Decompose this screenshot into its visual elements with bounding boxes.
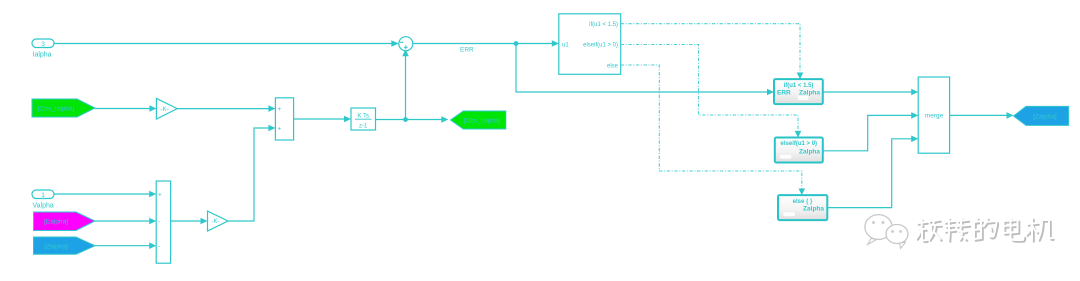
svg-text:ERR: ERR — [460, 47, 474, 54]
gain -K- lower — [208, 211, 229, 231]
dashed control wire else to action subsystem 3 — [621, 65, 805, 195]
inport 3 Ialpha — [32, 39, 54, 59]
svg-text:-K-: -K- — [161, 107, 169, 113]
wire action2 to merge — [823, 112, 918, 151]
wire ERR junction down to action subsystem 1 — [516, 44, 774, 96]
watermark wechat icon small bubble — [886, 225, 908, 249]
svg-text:[Obs_Ialpha]: [Obs_Ialpha] — [38, 106, 75, 113]
svg-text:K Ts: K Ts — [357, 114, 369, 120]
goto tag [Obs_Ialpha] green — [451, 111, 506, 129]
wire sum1 to integrator — [294, 116, 351, 123]
gain -K- upper — [156, 98, 177, 119]
wire sum2 to gain K2 — [171, 218, 208, 225]
svg-text:if(u1 < 1.5): if(u1 < 1.5) — [589, 22, 618, 28]
from tag [Ealpha] magenta — [34, 212, 96, 231]
If block u1 — [559, 14, 621, 75]
wire Ealpha to sum2 — [95, 218, 156, 225]
node junction on integrator output — [403, 117, 408, 122]
watermark wechat icon big bubble — [865, 215, 892, 245]
inport 1 Valpha — [32, 190, 54, 210]
wire action1 to merge — [823, 89, 918, 96]
svg-text:-K-: -K- — [212, 219, 220, 225]
wire Zalpha to sum2 — [95, 242, 156, 249]
svg-text:1: 1 — [41, 192, 45, 199]
svg-text:Zalpha: Zalpha — [803, 205, 824, 212]
if action subsystem 3 else — [778, 195, 827, 220]
svg-text:merge: merge — [925, 113, 944, 120]
svg-text:Zalpha: Zalpha — [799, 148, 820, 155]
svg-text:else { }: else { } — [793, 199, 813, 205]
wire gain K1 to sum1 — [177, 105, 275, 112]
svg-text:Ialpha: Ialpha — [33, 52, 52, 59]
svg-text:elseif(u1 > 0): elseif(u1 > 0) — [781, 141, 818, 147]
wire merge to goto [Zalpha] — [950, 112, 1014, 119]
wire from tag to gain K1 — [95, 105, 156, 112]
if action subsystem 2 elseif(u1 > 0) — [775, 138, 823, 163]
wire integrator to goto [Obs_Ialpha] — [376, 116, 449, 123]
dashed control wire elseif() to action subsystem 2 — [621, 45, 802, 138]
dashed control wire if() to action subsystem 1 — [621, 24, 804, 79]
merge block — [918, 77, 949, 153]
svg-text:+: + — [278, 126, 282, 133]
svg-text:if(u1 < 1.5): if(u1 < 1.5) — [784, 83, 814, 89]
discrete integrator K Ts/(z-1) — [351, 108, 376, 130]
svg-text:-: - — [158, 219, 160, 226]
svg-text:+: + — [158, 192, 162, 199]
svg-text:[Zalpha]: [Zalpha] — [44, 243, 68, 250]
wire feedback junction up to sum circle — [402, 49, 409, 119]
sum2 block — [156, 181, 170, 263]
node junction ERR — [514, 41, 519, 46]
svg-text:ERR: ERR — [777, 90, 791, 97]
svg-text:elseif(u1 > 0): elseif(u1 > 0) — [583, 43, 618, 49]
svg-text:z-1: z-1 — [359, 124, 368, 130]
wire gain K2 up to sum1 — [228, 125, 275, 221]
svg-text:else: else — [607, 63, 619, 69]
sum circle — [399, 37, 413, 51]
from tag [Zalpha] blue lower — [34, 237, 96, 254]
svg-text:u1: u1 — [562, 43, 569, 49]
svg-text:3: 3 — [41, 41, 45, 48]
goto tag [Zalpha] blue — [1014, 106, 1069, 125]
sum1 block — [275, 98, 293, 140]
from tag [Obs_Ialpha] — [32, 99, 95, 117]
svg-text:[Obs_Ialpha]: [Obs_Ialpha] — [464, 118, 501, 125]
svg-text:[Ealpha]: [Ealpha] — [44, 219, 68, 226]
if action subsystem 1 if(u1 < 1.5) — [774, 79, 823, 104]
wire Ialpha to sum circle — [54, 40, 399, 47]
svg-text:[Zalpha]: [Zalpha] — [1033, 114, 1057, 121]
wire ERR sum circle to If block — [413, 40, 559, 47]
wire action3 to merge — [827, 136, 918, 208]
svg-text:Zalpha: Zalpha — [799, 90, 820, 97]
svg-text:Valpha: Valpha — [33, 203, 54, 210]
svg-text:+: + — [278, 106, 282, 113]
wire Valpha to sum2 — [54, 191, 156, 198]
watermark text 旋转的电机 — [916, 218, 1054, 242]
svg-text:-: - — [158, 243, 160, 250]
